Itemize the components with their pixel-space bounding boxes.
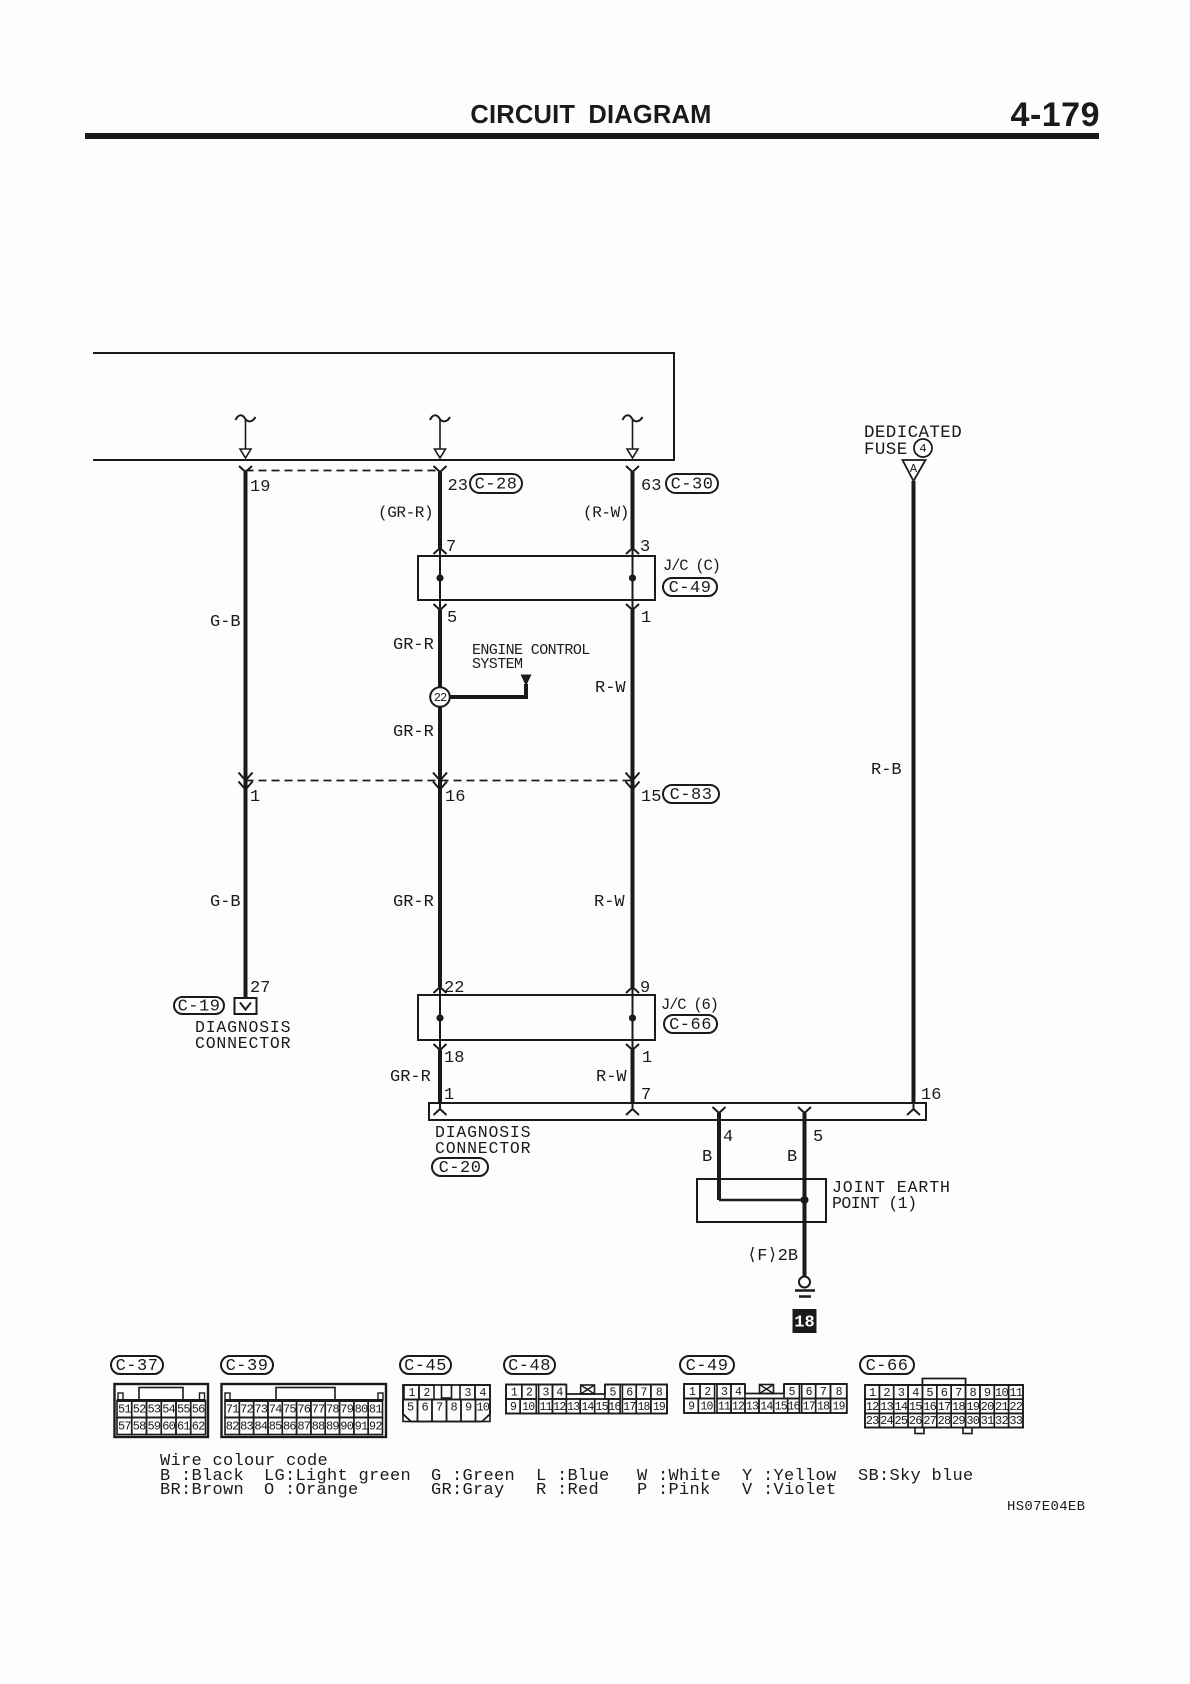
svg-text:89: 89 xyxy=(326,1420,339,1434)
svg-text:72: 72 xyxy=(240,1403,253,1417)
svg-text:31: 31 xyxy=(981,1414,994,1428)
svg-text:30: 30 xyxy=(966,1414,979,1428)
svg-text:POINT (1): POINT (1) xyxy=(832,1194,917,1213)
svg-text:CONNECTOR: CONNECTOR xyxy=(195,1034,291,1053)
svg-text:5: 5 xyxy=(789,1386,796,1399)
junction dot J/C(6) left xyxy=(436,1014,443,1021)
svg-text:16: 16 xyxy=(608,1401,621,1414)
svg-text:14: 14 xyxy=(760,1400,773,1413)
C-20 entry chevron pin16 xyxy=(913,1103,915,1109)
svg-text:51: 51 xyxy=(118,1403,131,1417)
svg-text:55: 55 xyxy=(177,1403,190,1417)
junction dot J/C(C) right xyxy=(629,574,636,581)
svg-text:28: 28 xyxy=(938,1414,951,1428)
header rule xyxy=(85,133,1099,139)
svg-text:56: 56 xyxy=(192,1403,205,1417)
svg-text:1: 1 xyxy=(689,1386,696,1399)
svg-text:25: 25 xyxy=(895,1414,908,1428)
svg-text:3: 3 xyxy=(721,1386,728,1399)
connector C-45 pinout xyxy=(403,1385,490,1422)
svg-text:17: 17 xyxy=(938,1400,951,1414)
svg-text:23: 23 xyxy=(448,477,468,496)
svg-text:4: 4 xyxy=(735,1386,742,1399)
connector C-48 pinout xyxy=(506,1385,667,1414)
connector C-45 tag bottom xyxy=(400,1356,451,1374)
svg-text:2: 2 xyxy=(526,1386,533,1399)
svg-text:19: 19 xyxy=(833,1400,846,1413)
svg-text:24: 24 xyxy=(880,1414,893,1428)
svg-text:27: 27 xyxy=(923,1414,936,1428)
svg-text:4: 4 xyxy=(723,1128,733,1147)
wire R-W segment c xyxy=(631,1050,635,1103)
svg-text:18: 18 xyxy=(794,1313,814,1332)
svg-text:5: 5 xyxy=(813,1128,823,1147)
svg-text:71: 71 xyxy=(226,1403,239,1417)
svg-text:C-19: C-19 xyxy=(178,997,221,1016)
J/C(C) exit fork right xyxy=(626,604,639,610)
tap wire to engine control system xyxy=(440,695,526,699)
svg-text:80: 80 xyxy=(355,1403,368,1417)
svg-text:22: 22 xyxy=(1009,1400,1022,1414)
svg-text:⟨F⟩2B: ⟨F⟩2B xyxy=(747,1247,798,1266)
svg-text:15: 15 xyxy=(641,788,661,807)
svg-text:18: 18 xyxy=(817,1400,830,1413)
svg-text:SYSTEM: SYSTEM xyxy=(472,656,523,673)
junction dot J/C(6) right xyxy=(629,1014,636,1021)
svg-text:3: 3 xyxy=(898,1386,905,1400)
svg-text:13: 13 xyxy=(567,1401,580,1414)
svg-text:6: 6 xyxy=(806,1386,813,1399)
connector C-49 tag bottom xyxy=(680,1356,734,1374)
wire GR-R thin through J/C(C) xyxy=(439,548,441,610)
svg-text:20: 20 xyxy=(981,1400,994,1414)
svg-text:54: 54 xyxy=(162,1403,175,1417)
connector C-39 pinout xyxy=(222,1384,387,1437)
connector C-20 tag xyxy=(432,1158,488,1176)
joint earth point box xyxy=(697,1179,826,1222)
svg-text:58: 58 xyxy=(133,1420,146,1434)
svg-text:4-179: 4-179 xyxy=(1011,96,1100,134)
svg-text:8: 8 xyxy=(451,1401,458,1415)
svg-text:29: 29 xyxy=(952,1414,965,1428)
svg-text:21: 21 xyxy=(995,1400,1008,1414)
wire break symbol 3 xyxy=(623,415,643,421)
svg-text:78: 78 xyxy=(326,1403,339,1417)
svg-text:11: 11 xyxy=(539,1401,552,1414)
svg-text:73: 73 xyxy=(254,1403,267,1417)
svg-text:18: 18 xyxy=(444,1049,464,1068)
fuse terminal triangle A xyxy=(903,460,926,481)
svg-text:C-28: C-28 xyxy=(475,475,518,494)
svg-text:62: 62 xyxy=(192,1420,205,1434)
ground symbol xyxy=(799,1277,810,1288)
earth box internal wire xyxy=(719,1199,805,1202)
svg-text:5: 5 xyxy=(609,1386,616,1399)
svg-text:75: 75 xyxy=(283,1403,296,1417)
wire break symbol 1 xyxy=(236,415,256,421)
diagnosis connector C-20 box xyxy=(429,1103,926,1120)
svg-text:1: 1 xyxy=(869,1386,876,1400)
wire B left xyxy=(717,1113,721,1200)
svg-text:1: 1 xyxy=(511,1386,518,1399)
tap junction circle 22 xyxy=(430,687,450,707)
svg-text:C-30: C-30 xyxy=(671,475,714,494)
svg-text:8: 8 xyxy=(970,1386,977,1400)
svg-text:10: 10 xyxy=(476,1401,489,1415)
svg-text:1: 1 xyxy=(641,609,651,628)
J/C(6) entry fork left xyxy=(434,987,447,993)
earth junction dot xyxy=(801,1196,809,1204)
C-20 entry chevron pin1 xyxy=(439,1103,441,1109)
svg-text:12: 12 xyxy=(732,1400,745,1413)
svg-text:R-W: R-W xyxy=(595,679,626,698)
connector fork pin 63 xyxy=(626,466,639,472)
connector fork pin 19 xyxy=(239,466,252,472)
svg-text:3: 3 xyxy=(543,1386,550,1399)
svg-text:1: 1 xyxy=(250,788,260,807)
svg-text:12: 12 xyxy=(553,1401,566,1414)
page header title xyxy=(470,96,1100,134)
svg-text:60: 60 xyxy=(162,1420,175,1434)
wire R-W segment a xyxy=(631,472,635,548)
svg-text:CIRCUIT DIAGRAM: CIRCUIT DIAGRAM xyxy=(470,101,711,129)
connector C-19 terminal box xyxy=(235,998,257,1014)
svg-text:18: 18 xyxy=(637,1401,650,1414)
svg-text:19: 19 xyxy=(653,1401,666,1414)
svg-text:SB:Sky blue: SB:Sky blue xyxy=(858,1467,974,1486)
svg-text:22: 22 xyxy=(434,691,447,705)
svg-text:16: 16 xyxy=(787,1400,800,1413)
svg-text:4: 4 xyxy=(919,442,926,456)
C-20 entry chevron pin7 xyxy=(632,1103,634,1109)
svg-text:7: 7 xyxy=(955,1386,962,1400)
inline connector pin 1 xyxy=(239,773,253,781)
svg-text:B: B xyxy=(702,1148,712,1167)
svg-text:C-49: C-49 xyxy=(669,579,712,598)
svg-text:O :Orange: O :Orange xyxy=(264,1481,359,1500)
svg-text:90: 90 xyxy=(340,1420,353,1434)
svg-text:7: 7 xyxy=(641,1386,647,1399)
connector C-30 tag xyxy=(666,474,718,493)
svg-text:7: 7 xyxy=(436,1401,443,1415)
connector C-66 tag xyxy=(664,1015,717,1033)
svg-text:4: 4 xyxy=(556,1386,563,1399)
svg-text:R-W: R-W xyxy=(596,1068,627,1087)
svg-text:53: 53 xyxy=(147,1403,160,1417)
svg-text:32: 32 xyxy=(995,1414,1008,1428)
svg-text:4: 4 xyxy=(912,1386,919,1400)
svg-text:61: 61 xyxy=(177,1420,190,1434)
svg-text:11: 11 xyxy=(1009,1386,1022,1400)
svg-text:C-37: C-37 xyxy=(116,1357,159,1376)
svg-text:C-45: C-45 xyxy=(404,1357,447,1376)
svg-text:19: 19 xyxy=(250,478,270,497)
svg-text:CONNECTOR: CONNECTOR xyxy=(435,1139,531,1158)
svg-text:83: 83 xyxy=(240,1420,253,1434)
wire R-W segment b xyxy=(631,610,635,987)
svg-text:63: 63 xyxy=(641,477,661,496)
wire G-B upper xyxy=(244,472,248,780)
connector C-66 tag bottom xyxy=(860,1356,914,1374)
connector C-49 pinout xyxy=(684,1384,847,1413)
svg-text:R-W: R-W xyxy=(594,893,625,912)
svg-text:13: 13 xyxy=(880,1400,893,1414)
svg-text:G-B: G-B xyxy=(210,613,241,632)
junction block J/C (6) xyxy=(418,995,655,1040)
svg-text:76: 76 xyxy=(297,1403,310,1417)
wire R-B xyxy=(912,481,916,1103)
svg-text:1: 1 xyxy=(642,1049,652,1068)
svg-text:11: 11 xyxy=(718,1400,731,1413)
svg-text:26: 26 xyxy=(909,1414,922,1428)
svg-text:GR:Gray: GR:Gray xyxy=(431,1481,505,1500)
svg-text:GR-R: GR-R xyxy=(390,1068,431,1087)
connector fork pin 23 xyxy=(434,466,447,472)
earth point number 18 xyxy=(793,1309,817,1333)
svg-text:16: 16 xyxy=(923,1400,936,1414)
circled 4 xyxy=(914,439,932,457)
svg-text:C-49: C-49 xyxy=(686,1357,729,1376)
connector C-39 tag bottom xyxy=(221,1356,273,1374)
svg-text:GR-R: GR-R xyxy=(393,723,434,742)
svg-text:9: 9 xyxy=(688,1400,695,1413)
svg-text:C-48: C-48 xyxy=(508,1357,551,1376)
J/C(6) exit fork left xyxy=(434,1044,447,1050)
svg-text:15: 15 xyxy=(596,1401,609,1414)
svg-text:57: 57 xyxy=(118,1420,131,1434)
svg-text:R-B: R-B xyxy=(871,761,902,780)
svg-text:R :Red: R :Red xyxy=(536,1481,599,1500)
svg-text:6: 6 xyxy=(941,1386,948,1400)
wire B right xyxy=(803,1113,807,1276)
connector C-83 tag xyxy=(663,785,719,803)
svg-text:59: 59 xyxy=(147,1420,160,1434)
svg-text:7: 7 xyxy=(820,1386,826,1399)
svg-text:88: 88 xyxy=(312,1420,325,1434)
J/C(C) exit fork left xyxy=(434,604,447,610)
svg-text:79: 79 xyxy=(340,1403,353,1417)
wire GR-R segment a xyxy=(438,472,442,548)
svg-text:G-B: G-B xyxy=(210,893,241,912)
inline connector pin 16 xyxy=(433,773,447,781)
svg-text:14: 14 xyxy=(895,1400,908,1414)
svg-text:15: 15 xyxy=(775,1400,788,1413)
svg-text:FUSE: FUSE xyxy=(864,440,908,460)
svg-text:V :Violet: V :Violet xyxy=(742,1481,837,1500)
C-20 exit fork pin5 xyxy=(798,1107,811,1113)
junction dot J/C(C) left xyxy=(436,574,443,581)
wire thin through J/C(6) right xyxy=(632,987,634,1050)
svg-text:J/C (6): J/C (6) xyxy=(661,996,718,1014)
svg-text:52: 52 xyxy=(133,1403,146,1417)
svg-text:84: 84 xyxy=(254,1420,267,1434)
svg-text:23: 23 xyxy=(866,1414,879,1428)
svg-text:C-66: C-66 xyxy=(669,1016,712,1035)
svg-text:3: 3 xyxy=(464,1387,471,1400)
connector C-37 pinout xyxy=(115,1384,209,1437)
svg-text:2: 2 xyxy=(883,1386,890,1400)
svg-text:17: 17 xyxy=(803,1400,815,1413)
svg-text:17: 17 xyxy=(623,1401,635,1414)
svg-text:19: 19 xyxy=(966,1400,979,1414)
svg-text:HS07E04EB: HS07E04EB xyxy=(1007,1499,1085,1515)
svg-text:14: 14 xyxy=(581,1401,594,1414)
wire GR-R segment c xyxy=(438,1050,442,1103)
svg-text:86: 86 xyxy=(283,1420,296,1434)
svg-text:9: 9 xyxy=(510,1401,517,1414)
svg-text:GR-R: GR-R xyxy=(393,893,434,912)
svg-text:6: 6 xyxy=(626,1386,633,1399)
svg-text:12: 12 xyxy=(866,1400,879,1414)
wire thin through J/C(6) left xyxy=(439,987,441,1050)
svg-text:7: 7 xyxy=(446,538,456,557)
svg-text:81: 81 xyxy=(369,1403,382,1417)
wire break symbol 2 xyxy=(430,415,450,421)
C-20 exit fork pin4 xyxy=(713,1107,726,1113)
svg-text:5: 5 xyxy=(926,1386,933,1400)
connector C-48 tag bottom xyxy=(504,1356,555,1374)
svg-text:27: 27 xyxy=(250,979,270,998)
svg-text:3: 3 xyxy=(640,538,650,557)
connector line C-28 dashed xyxy=(246,470,441,472)
svg-text:16: 16 xyxy=(445,788,465,807)
svg-text:P :Pink: P :Pink xyxy=(637,1481,711,1500)
svg-text:1: 1 xyxy=(408,1387,415,1400)
wire colour code heading xyxy=(160,1452,1085,1515)
svg-text:5: 5 xyxy=(447,609,457,628)
connector C-66 pinout xyxy=(922,1379,965,1386)
J/C(C) entry fork xyxy=(434,548,447,554)
inline connector pin 15 xyxy=(626,773,640,781)
svg-text:8: 8 xyxy=(656,1386,663,1399)
wire GR-R segment b xyxy=(438,610,442,987)
svg-text:C-39: C-39 xyxy=(226,1357,269,1376)
svg-text:(R-W): (R-W) xyxy=(583,504,629,522)
svg-text:10: 10 xyxy=(700,1400,713,1413)
J/C(C) entry fork right xyxy=(626,548,639,554)
svg-text:4: 4 xyxy=(479,1387,486,1400)
svg-text:A: A xyxy=(910,462,918,476)
connector C-19 tag xyxy=(174,997,224,1014)
svg-text:C-66: C-66 xyxy=(866,1357,909,1376)
svg-text:8: 8 xyxy=(836,1386,843,1399)
svg-text:85: 85 xyxy=(269,1420,282,1434)
svg-text:15: 15 xyxy=(909,1400,922,1414)
svg-text:10: 10 xyxy=(522,1401,535,1414)
svg-text:2: 2 xyxy=(423,1387,430,1400)
svg-text:87: 87 xyxy=(297,1420,310,1434)
wire G-B lower xyxy=(244,780,248,998)
power supply box from previous page xyxy=(93,353,674,460)
svg-text:9: 9 xyxy=(465,1401,472,1415)
svg-text:5: 5 xyxy=(407,1401,414,1415)
J/C(6) exit fork right xyxy=(626,1044,639,1050)
svg-text:18: 18 xyxy=(952,1400,965,1414)
svg-text:6: 6 xyxy=(422,1401,429,1415)
svg-text:9: 9 xyxy=(984,1386,991,1400)
svg-text:(GR-R): (GR-R) xyxy=(378,504,433,522)
svg-text:77: 77 xyxy=(312,1403,325,1417)
svg-text:92: 92 xyxy=(369,1420,382,1434)
svg-text:13: 13 xyxy=(746,1400,759,1413)
junction block J/C (C) xyxy=(418,556,655,600)
svg-text:B: B xyxy=(787,1148,797,1167)
svg-text:C-83: C-83 xyxy=(670,786,713,805)
svg-text:10: 10 xyxy=(995,1386,1008,1400)
svg-text:C-20: C-20 xyxy=(439,1159,482,1178)
J/C(6) entry fork right xyxy=(626,987,639,993)
svg-text:2: 2 xyxy=(704,1386,711,1399)
svg-text:BR:Brown: BR:Brown xyxy=(160,1481,244,1500)
svg-text:74: 74 xyxy=(269,1403,282,1417)
connector C-49 tag xyxy=(663,578,717,596)
connector C-37 tag bottom xyxy=(111,1356,163,1374)
svg-text:J/C (C): J/C (C) xyxy=(663,557,720,575)
connector C-28 tag xyxy=(470,474,522,493)
wire R-W thin through J/C(C) xyxy=(632,548,634,610)
connector line C-83 dashed xyxy=(246,780,633,782)
svg-text:GR-R: GR-R xyxy=(393,636,434,655)
svg-text:33: 33 xyxy=(1009,1414,1022,1428)
svg-text:82: 82 xyxy=(226,1420,239,1434)
svg-text:91: 91 xyxy=(355,1420,368,1434)
